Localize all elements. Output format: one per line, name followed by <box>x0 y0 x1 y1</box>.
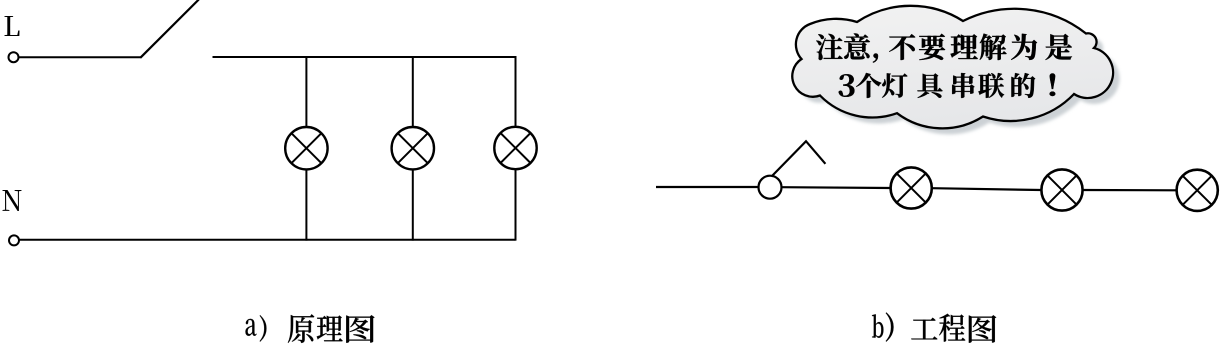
wire bottom bus N <box>19 239 515 241</box>
terminal circle N <box>9 235 19 245</box>
wire left feed <box>656 186 759 188</box>
lamp (circle-X) at (306.4,148.2) <box>285 127 327 169</box>
caption 工程图 <box>911 314 996 343</box>
cloud callout shadow <box>799 12 1120 135</box>
wire lamp3 to bottom bus <box>515 169 517 241</box>
caption b) <box>872 312 893 341</box>
lamp EL1 (circle-X) at (911.2,188.0) <box>891 167 932 208</box>
lamp EL2 (circle-X) at (1062.0,190.0) <box>1041 169 1082 210</box>
cloud text line 1: 注意,不要理解为是 <box>816 33 1072 62</box>
caption a) <box>246 315 267 341</box>
cloud text line 2: 3个灯具串联的！ <box>839 73 1056 98</box>
wire switch to lamp EL1 <box>782 186 891 189</box>
wire lamp2 to bottom bus <box>412 169 414 240</box>
lamp (circle-X) at (412.8,148.2) <box>392 127 434 169</box>
caption 原理图 <box>288 314 375 343</box>
wire drop to lamp 1 <box>305 56 307 127</box>
cloud callout body <box>792 6 1113 129</box>
label N (neutral terminal) <box>2 190 21 211</box>
wire EL2 to EL3 <box>1083 189 1176 192</box>
wire drop to lamp 2 <box>412 56 414 127</box>
wire EL1 to EL2 <box>932 188 1040 190</box>
wire from L terminal to switch <box>19 56 141 58</box>
wire drop to lamp 3 <box>515 56 517 127</box>
lamp EL3 (circle-X) at (1197.2,190.3) <box>1177 170 1218 211</box>
terminal circle L <box>9 52 19 62</box>
lamp (circle-X) at (515.5,148.0) <box>494 127 536 169</box>
wire top bus <box>213 56 516 58</box>
switch SA blade (open, diagonal) <box>140 0 199 58</box>
switch arm (open blade with hook) <box>772 141 826 176</box>
label L (phase terminal) <box>4 16 19 36</box>
switch pivot circle <box>759 176 782 199</box>
wire lamp1 to bottom bus <box>305 169 307 240</box>
